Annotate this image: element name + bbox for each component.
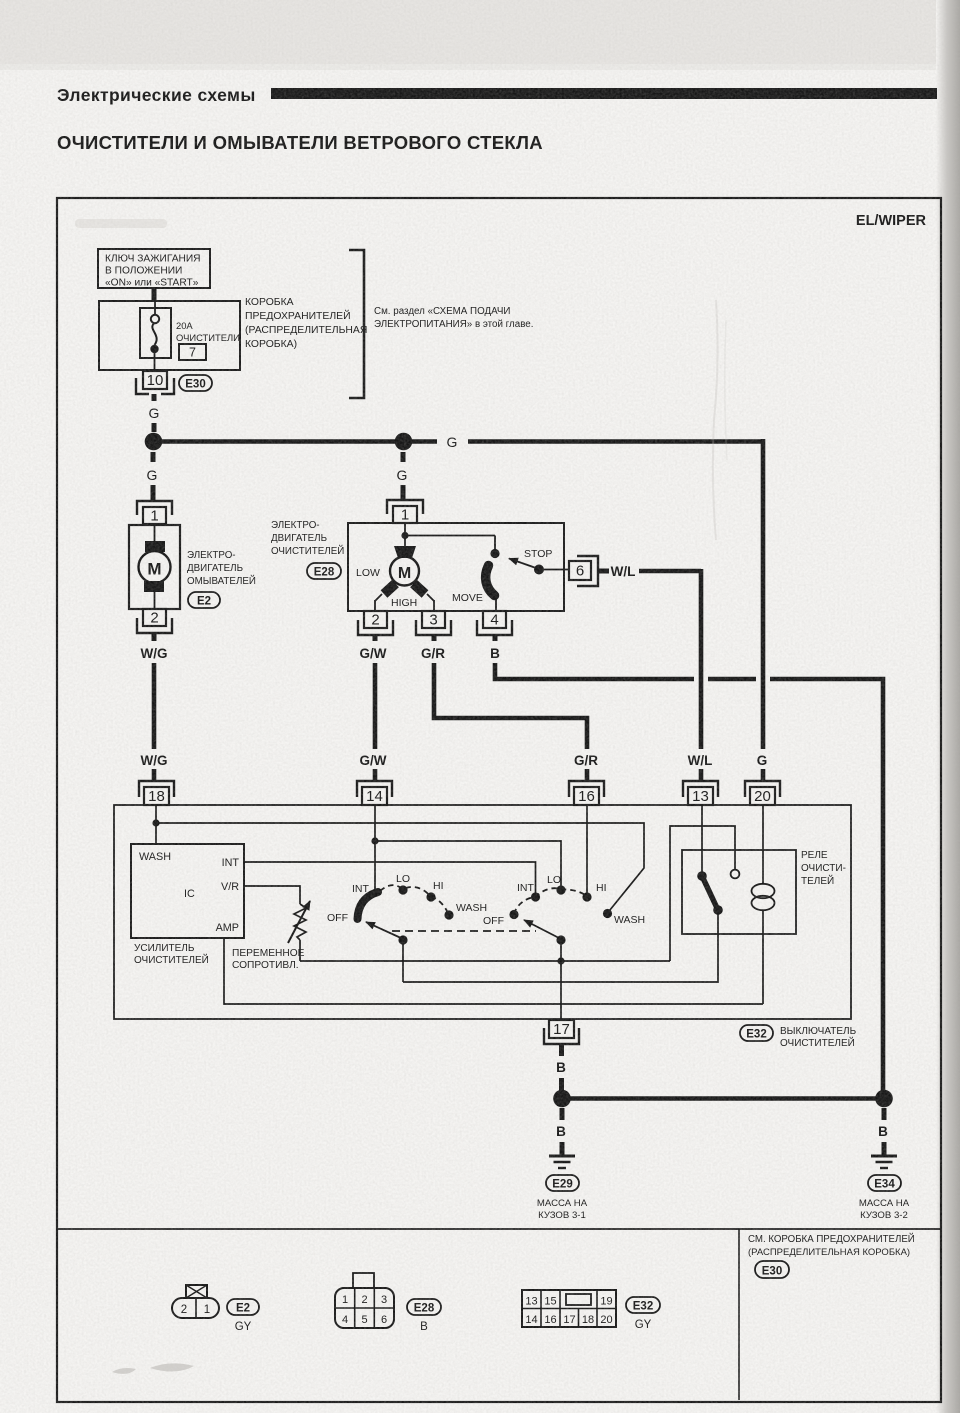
wiper motor box (E28) (348, 523, 564, 611)
ground junction node right (875, 1090, 893, 1108)
wire label G/W above connector 14 (360, 753, 387, 780)
connector 18 (139, 781, 174, 805)
wiper relay box (682, 850, 796, 934)
connector face E28 (335, 1273, 394, 1328)
wire key-to-fusebox (thick) (152, 288, 157, 301)
E28 oval (bottom) (407, 1299, 441, 1315)
washer motor M (E2) (129, 525, 180, 609)
fuse box (distribution box) (99, 301, 240, 370)
variable resistor (288, 901, 310, 961)
washer motor connector 2 (137, 609, 172, 633)
wiper connector 3 (416, 611, 451, 635)
E2 oval (188, 592, 220, 608)
relay switch (697, 870, 739, 915)
wire relay arm to switch-1 pivot (403, 910, 718, 982)
switch group 1 moving contact (INT crescent) (358, 892, 379, 919)
wiper motor connector 1 (387, 500, 423, 524)
main diagram frame (57, 198, 941, 1402)
wire 16 to switch-2 HI (586, 805, 588, 896)
wire G right feed down to connector 20 (761, 439, 766, 749)
switch group 1 arm pivot and arrow (366, 922, 408, 982)
switch group 2 arm pivot and arrow (524, 920, 566, 1019)
wire label W/G above connector 18 (141, 753, 168, 780)
wire 20 to relay coil (762, 805, 764, 884)
wire W/G label (141, 633, 168, 749)
fuse number box 7 (179, 344, 206, 360)
fuse 20A element (140, 301, 240, 370)
E30 oval (bottom) (755, 1261, 789, 1278)
wire WASH feed (junction to wash contact) (156, 823, 644, 913)
connector 10 (136, 371, 174, 394)
wiper motor internals (356, 523, 434, 611)
wire G horizontal main feed (153, 434, 763, 450)
E30 oval (179, 375, 212, 391)
amplifier box (131, 844, 244, 938)
ignition key box (98, 249, 210, 289)
header black bar (271, 88, 937, 99)
mechanical link dashed (392, 930, 536, 932)
connector 13 (683, 781, 718, 805)
wire label G above connector 20 (757, 753, 768, 780)
wire G/R down from wiper connector 3 (421, 635, 587, 749)
ground bus wire (562, 1096, 884, 1101)
ground junction node left (553, 1090, 571, 1108)
wire INT amp to switch-2 INT (244, 862, 536, 896)
wire resistor/relay-contact common to ground rail (300, 960, 670, 962)
wire G to washer motor (147, 452, 158, 500)
E28 oval (307, 563, 341, 579)
wire 14 to switch-1 INT contact (371, 805, 378, 893)
E34 oval (868, 1175, 901, 1191)
wire relay NO contact up-and-around to ground rail (670, 826, 735, 961)
wiper switch assembly box (E32) (114, 805, 851, 1019)
bracket (see section note) (349, 250, 364, 398)
E29 oval (546, 1175, 579, 1191)
washer motor connector 1 (137, 501, 172, 525)
wire label G/R above connector 16 (574, 753, 598, 780)
wire 13 to relay common (701, 805, 703, 876)
wiper connector 4 (477, 611, 512, 635)
wire G fuse-to-junction (149, 394, 160, 432)
relay coil (752, 884, 775, 1004)
connector face E32 (522, 1290, 616, 1327)
scan noise overlay (0, 0, 1, 1)
wire AMP output to relay coil (224, 938, 763, 1004)
connector 6 (569, 556, 598, 586)
ghost text smudge (75, 219, 167, 228)
wire B to ground E29 (556, 1108, 566, 1155)
E32 oval (bottom) (626, 1297, 660, 1313)
connector 14 (357, 781, 392, 805)
separator line (57, 1228, 941, 1230)
wire W/L from connector 6 (598, 564, 701, 749)
wire label W/L above connector 13 (688, 753, 713, 780)
connector 20 (745, 781, 780, 805)
junction node B (395, 433, 413, 451)
wire 14-branch to switch-2 LO (375, 841, 561, 889)
wire V/R to variable resistor (244, 886, 300, 904)
wiper stop switch (405, 536, 569, 612)
E2 oval (bottom) (227, 1299, 259, 1315)
bottom-left smudge (112, 1363, 194, 1373)
wire G/W down from wiper connector 2 (360, 635, 387, 749)
wire B to ground E34 (878, 1108, 888, 1155)
junction node A (145, 433, 163, 451)
connector 16 (569, 781, 604, 805)
E32 oval (740, 1025, 773, 1041)
switch group 1 positions (327, 873, 487, 924)
wire B down from wiper connector 4 (490, 635, 883, 1093)
vertical divider (738, 1229, 740, 1400)
ground symbol E34 (871, 1156, 897, 1168)
connector 17 (544, 1020, 579, 1044)
connector face E2 (172, 1285, 219, 1318)
wire 18-to-amplifier with junction (152, 805, 159, 844)
wire B from connector 17 to ground (556, 1044, 566, 1091)
switch group 2 positions (483, 874, 645, 927)
wiper connector 2 (358, 611, 393, 635)
wire G to wiper motor (397, 452, 408, 500)
ground symbol E29 (549, 1156, 575, 1168)
